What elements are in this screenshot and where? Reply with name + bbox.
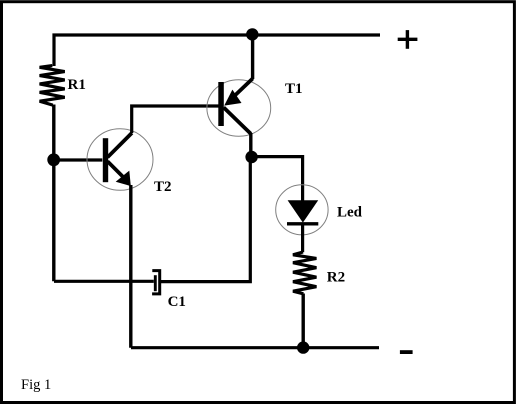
- resistor R2: [293, 252, 316, 294]
- wire: LED cathode down to R2: [301, 225, 304, 252]
- node: bottom junction: [297, 341, 309, 353]
- wire: left rail from R1 down past node to C1 horizontal: [52, 105, 55, 282]
- svg-text:C1: C1: [168, 294, 186, 310]
- svg-text:Led: Led: [337, 205, 363, 221]
- wire: mid junction right and down to LED: [252, 157, 303, 201]
- wire: mid junction down to C1 right wire: [161, 157, 250, 282]
- transistor T2 (NPN): [87, 129, 153, 191]
- capacitor C1: [152, 271, 160, 294]
- wire: T2 base wire: [57, 158, 102, 161]
- wire: bottom rail to - terminal: [131, 346, 379, 349]
- node: mid junction (T1 collector): [245, 151, 257, 163]
- wire: T2 collector up to T1 base: [132, 106, 219, 133]
- transistor T1 (PNP): [207, 79, 271, 137]
- wire: R2 down to bottom junction: [302, 294, 305, 348]
- svg-text:T2: T2: [154, 179, 172, 195]
- svg-text:Fig 1: Fig 1: [21, 377, 51, 393]
- wire: T1 emitter up to top junction: [251, 34, 254, 79]
- wire: T1 collector down to mid junction: [249, 133, 252, 157]
- svg-text:R2: R2: [327, 270, 345, 286]
- + terminal (positive supply symbol): [398, 30, 418, 49]
- LED D1: [276, 185, 328, 235]
- resistor R1: [40, 66, 65, 106]
- wire: T2 emitter down to bottom rail: [129, 185, 132, 348]
- - terminal (negative supply symbol): [400, 350, 413, 354]
- node: left rail junction to T2 base: [47, 153, 60, 166]
- wire: top supply rail from left rail corner to + terminal: [54, 35, 380, 66]
- wire: C1 left plate to left rail: [54, 280, 154, 283]
- svg-text:R1: R1: [68, 77, 86, 93]
- node: top junction at positive rail: [246, 28, 258, 40]
- svg-text:T1: T1: [285, 81, 303, 97]
